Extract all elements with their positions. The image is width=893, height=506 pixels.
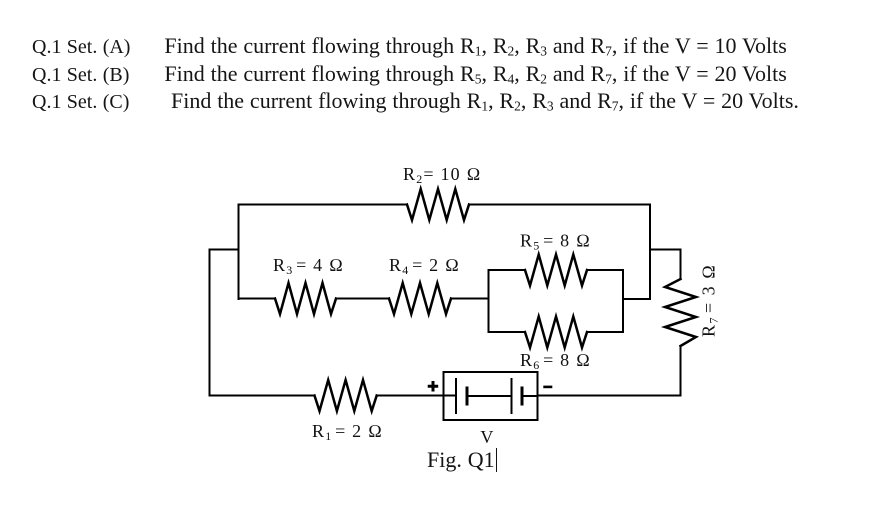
wire R7 bottom to bottom-right corner and to battery <box>538 346 681 396</box>
svg-text:R5 = 8 Ω: R5 = 8 Ω <box>520 231 591 253</box>
battery cell 1 long plate <box>455 379 457 413</box>
wire parallel block left edge <box>488 270 490 332</box>
battery plus sign <box>428 381 439 392</box>
wire R6 branch right <box>587 331 623 333</box>
wire parallel block right edge <box>622 270 624 332</box>
battery V box <box>444 372 538 420</box>
battery cell 2 long plate <box>511 379 513 413</box>
battery wire out of right plate <box>522 395 538 397</box>
resistor R7 <box>665 279 696 346</box>
svg-text:R6 = 8 Ω: R6 = 8 Ω <box>520 350 591 372</box>
resistor R2 <box>407 189 469 220</box>
battery wire into left plate <box>444 395 456 397</box>
battery middle wire <box>467 395 512 397</box>
svg-text:R7 = 3 Ω: R7 = 3 Ω <box>699 264 721 338</box>
resistor R4 <box>389 283 451 314</box>
wire left connector <box>210 249 239 251</box>
svg-text:V: V <box>480 427 494 447</box>
wire R5 branch right <box>587 269 623 271</box>
resistor R1 <box>315 380 377 411</box>
figure caption <box>427 447 497 472</box>
svg-text:R1 = 2 Ω: R1 = 2 Ω <box>312 421 383 443</box>
question text line 3 <box>32 88 799 115</box>
wire top-left vertical (inner left branch) <box>238 205 240 300</box>
question text line 2 <box>32 61 787 88</box>
resistor R6 <box>525 317 587 348</box>
battery cell 1 short plate <box>466 388 469 404</box>
question text line 1 <box>32 33 787 60</box>
wire bottom-left and outer-left vertical <box>210 250 315 396</box>
wire R6 branch left <box>489 331 526 333</box>
wire between R3 and R4 <box>336 298 389 300</box>
wire R7 top connector <box>650 250 681 280</box>
battery cell 2 short plate <box>521 388 524 404</box>
wire right vertical from top wire <box>649 205 651 300</box>
wire battery left to R1 <box>377 395 444 397</box>
svg-text:R2= 10 Ω: R2= 10 Ω <box>403 164 482 186</box>
svg-text:R3 = 4 Ω: R3 = 4 Ω <box>273 255 344 277</box>
resistor R5 <box>525 255 587 286</box>
resistor R3 <box>275 283 336 314</box>
battery minus sign <box>543 386 552 389</box>
wire top horizontal right of R2 <box>469 204 650 206</box>
wire stub parallel-block right to right vertical <box>623 298 650 300</box>
svg-text:R4 = 2 Ω: R4 = 2 Ω <box>389 255 460 277</box>
wire R4 to parallel block <box>451 298 489 300</box>
wire top horizontal left of R2 <box>239 204 408 206</box>
wire middle left of R3 <box>239 298 276 300</box>
wire R5 branch left <box>489 269 526 271</box>
